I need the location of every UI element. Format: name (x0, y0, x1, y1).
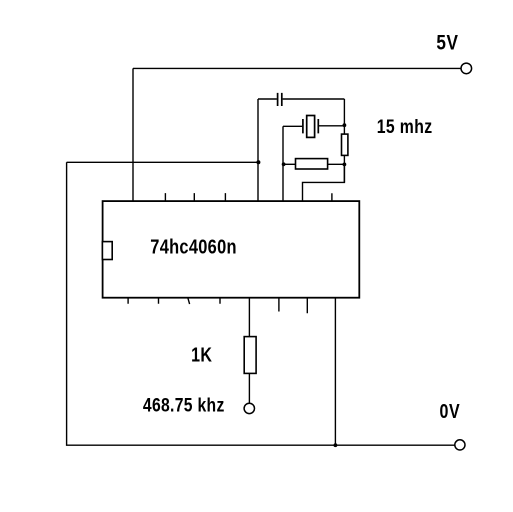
svg-text:0V: 0V (440, 401, 461, 423)
terminal 5V (461, 63, 472, 74)
wire feedback path down-left to IC pin (303, 164, 345, 201)
node junction dot resistor left (282, 162, 286, 166)
wire IC bottom pin stubs (128, 298, 220, 304)
resistor R3 1K (244, 337, 256, 374)
svg-text:1K: 1K (191, 344, 212, 366)
node 1K label (191, 344, 212, 366)
node pin-1 notch (102, 242, 112, 260)
terminal 0V (455, 440, 465, 450)
node junction dot resistor right (343, 163, 347, 167)
node junction dot crystal right (343, 123, 347, 127)
svg-text:74hc4060n: 74hc4060n (150, 235, 237, 258)
wire crystal right lead (319, 125, 345, 127)
resistor R1 vertical (342, 134, 348, 155)
wire below vertical resistor (343, 155, 345, 182)
node junction dot bottom rail (334, 443, 338, 447)
wire 5V rail horizontal (133, 67, 461, 69)
wire IC ground pin to bottom rail (334, 298, 336, 446)
wire horizontal resistor left lead (284, 163, 296, 165)
wire horizontal resistor right lead (328, 163, 345, 165)
node 5V label (436, 31, 458, 55)
node 15 mhz label (377, 116, 433, 138)
wire capacitor line right (283, 98, 345, 100)
terminal output 468.75 khz (244, 403, 254, 413)
wire capacitor line left (258, 99, 277, 202)
node 468.75 khz label (143, 394, 225, 416)
wire middle horizontal to left rail (67, 161, 259, 163)
wire right vertical from cap line down (343, 99, 345, 134)
IC U1 74hc4060n body (103, 201, 360, 298)
node 0V label (440, 401, 461, 423)
capacitor C1 (278, 93, 282, 106)
svg-text:5V: 5V (436, 31, 458, 55)
crystal X1 (303, 116, 318, 138)
wire left rail and 0V bottom rail (67, 162, 455, 445)
svg-text:468.75 khz: 468.75 khz (143, 394, 225, 416)
wire IC top pin stubs (165, 193, 332, 201)
svg-text:15 mhz: 15 mhz (377, 116, 433, 138)
wire IC bottom mid pins (279, 298, 307, 314)
wire 5V drop to IC pin 16 (132, 68, 134, 201)
wire pin to 1K resistor (248, 298, 250, 337)
wire crystal left lead (283, 125, 302, 127)
node 74hc4060n label (150, 235, 237, 258)
wire 1K to output terminal (248, 373, 250, 403)
wire crystal-left drop to IC pin (282, 126, 284, 201)
node junction dot mid wire (256, 160, 260, 164)
resistor R2 horizontal (296, 159, 328, 169)
